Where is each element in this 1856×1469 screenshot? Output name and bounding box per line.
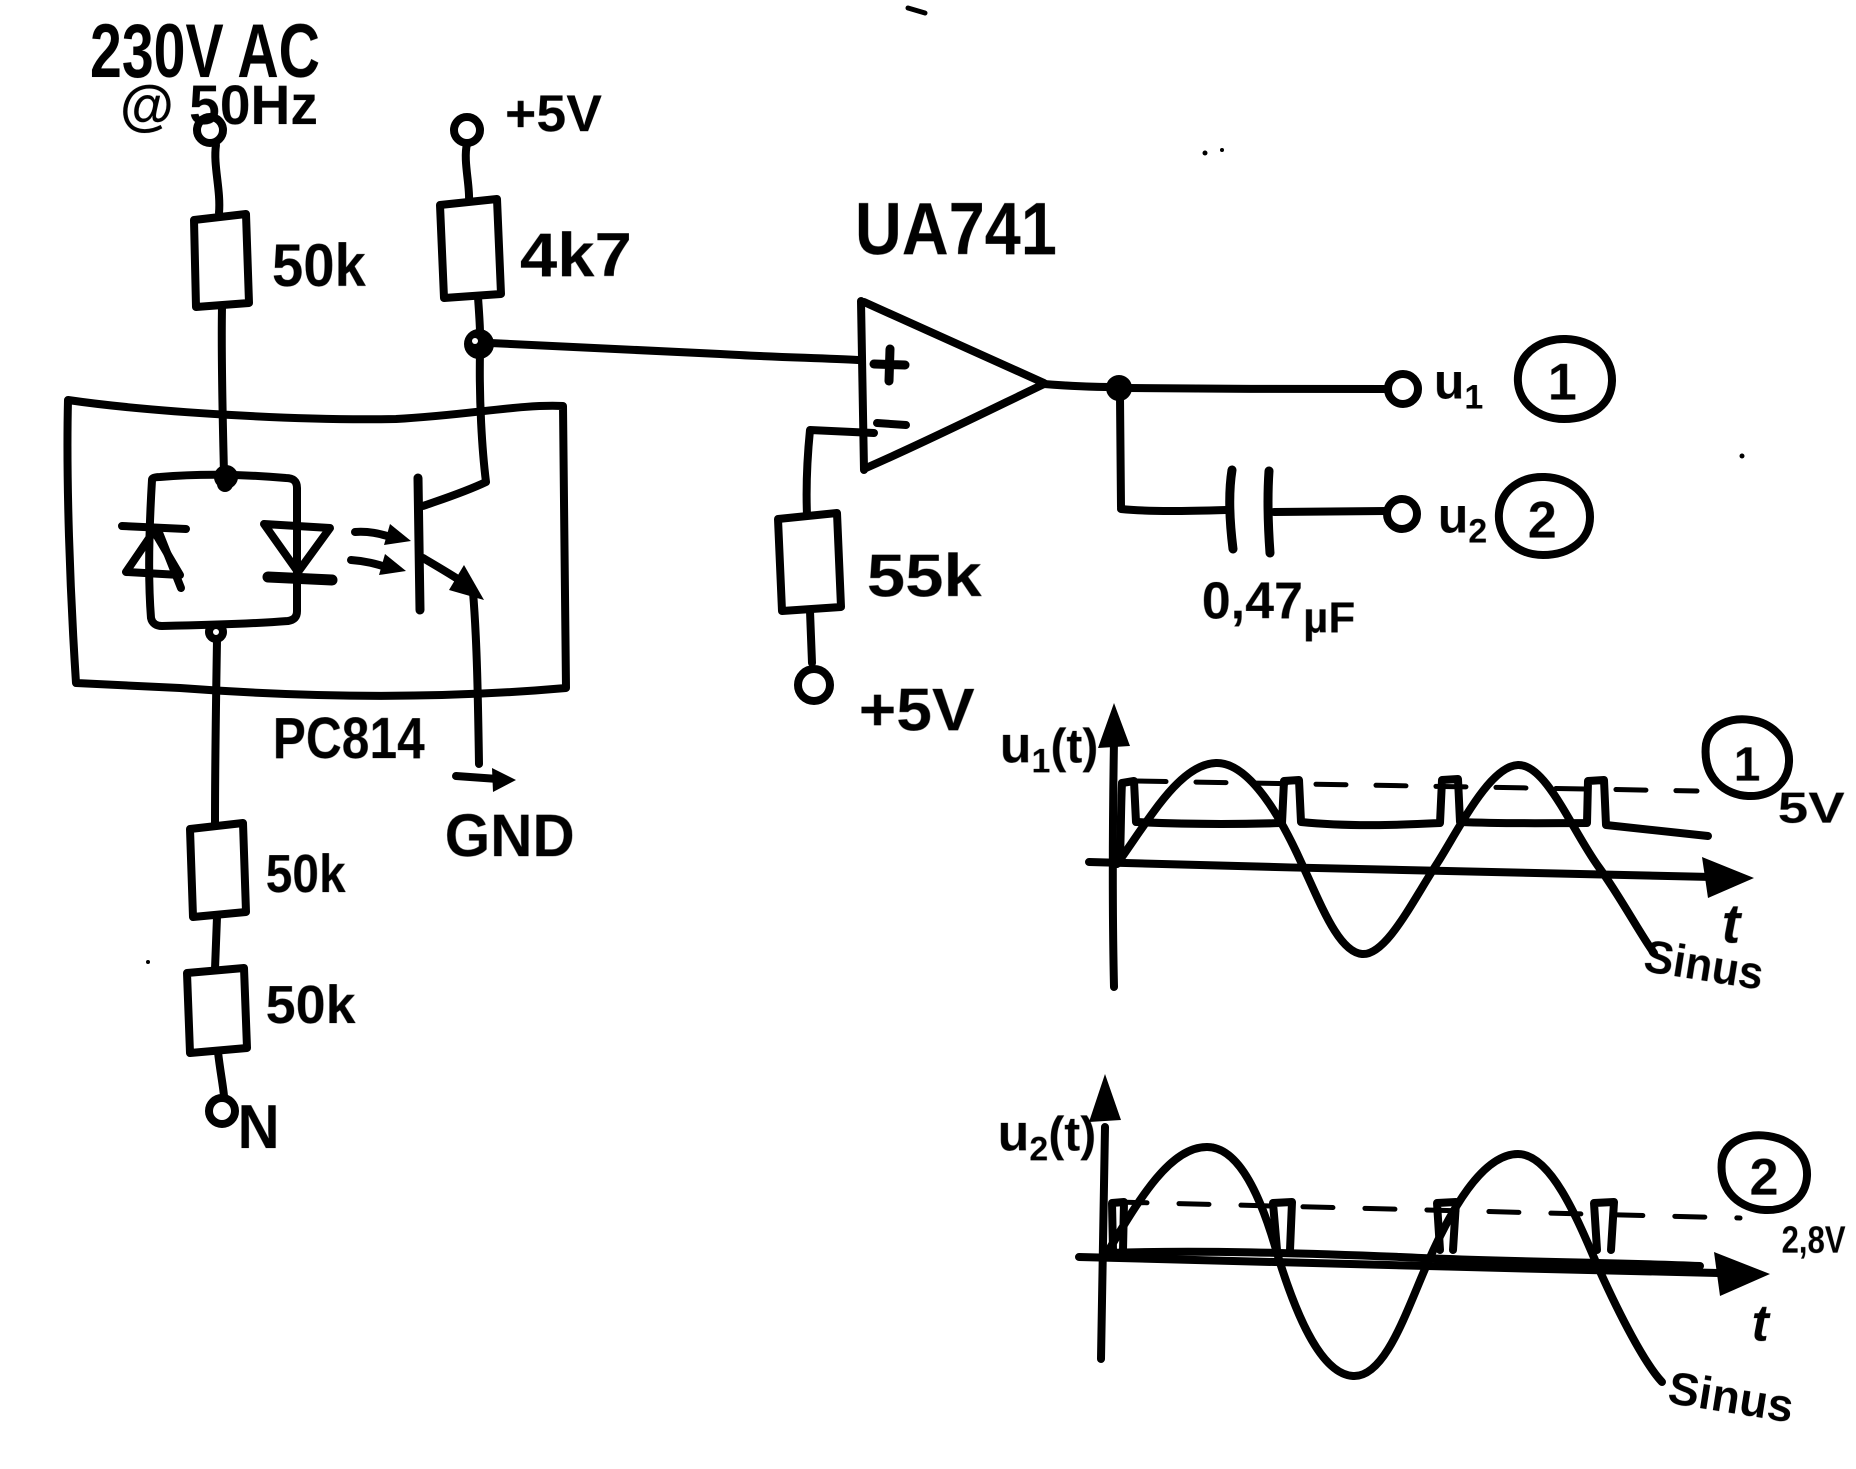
svg-text:0,47µF: 0,47µF: [1202, 572, 1355, 642]
svg-text:4k7: 4k7: [520, 221, 632, 290]
svg-text:t: t: [1752, 1295, 1772, 1353]
svg-text:N: N: [238, 1093, 280, 1162]
svg-text:u2(t): u2(t): [998, 1104, 1097, 1168]
svg-text:50k: 50k: [266, 975, 357, 1035]
svg-text:GND: GND: [445, 802, 575, 869]
svg-text:u1(t): u1(t): [1000, 716, 1099, 780]
svg-text:Sinus: Sinus: [1641, 929, 1768, 999]
svg-text:50k: 50k: [266, 844, 347, 904]
svg-text:1: 1: [1734, 739, 1761, 792]
svg-text:@ 50Hz: @ 50Hz: [120, 73, 318, 136]
svg-text:Sinus: Sinus: [1665, 1361, 1798, 1432]
svg-text:2: 2: [1528, 492, 1557, 550]
svg-text:50k: 50k: [272, 232, 367, 299]
svg-text:2,8V: 2,8V: [1782, 1220, 1847, 1262]
svg-text:5V: 5V: [1778, 784, 1846, 833]
svg-text:2: 2: [1750, 1149, 1779, 1207]
svg-text:u1: u1: [1434, 354, 1483, 417]
svg-text:UA741: UA741: [855, 187, 1057, 270]
svg-text:u2: u2: [1438, 488, 1487, 551]
svg-text:+5V: +5V: [859, 676, 975, 743]
svg-text:1: 1: [1548, 354, 1577, 412]
svg-text:55k: 55k: [867, 542, 983, 609]
svg-text:PC814: PC814: [273, 706, 425, 771]
svg-text:+5V: +5V: [505, 85, 602, 143]
